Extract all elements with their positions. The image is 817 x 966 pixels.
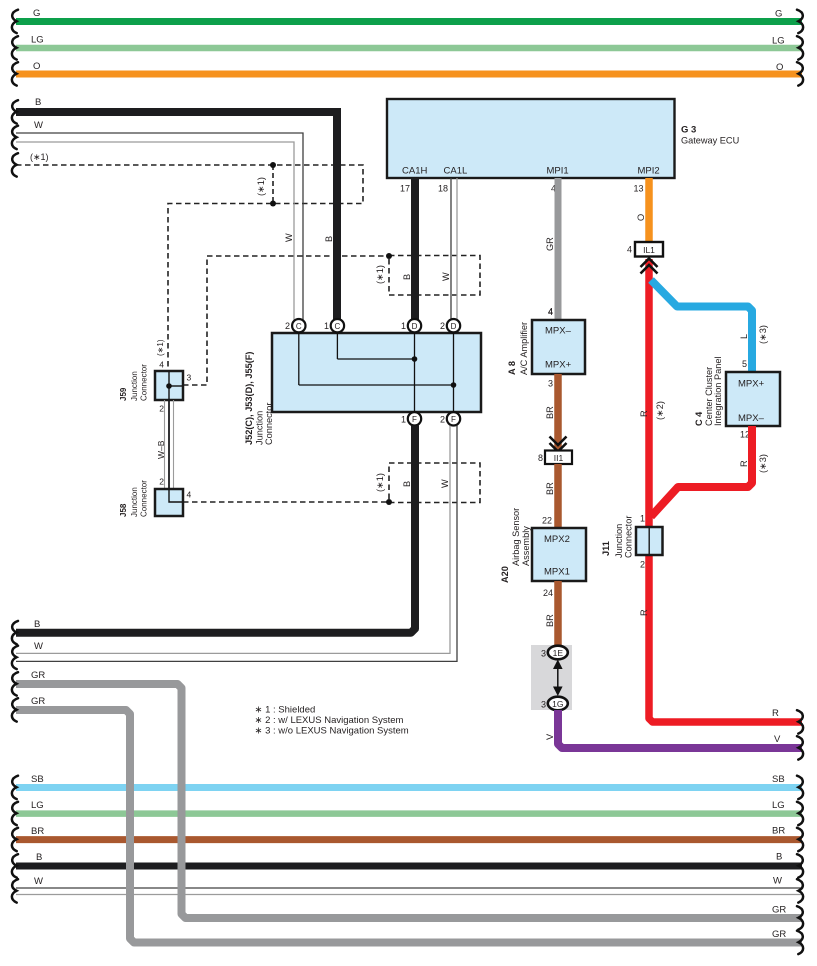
svg-text:(∗1): (∗1) <box>30 152 49 162</box>
svg-text:MPX–: MPX– <box>738 413 765 424</box>
svg-text:17: 17 <box>400 184 410 194</box>
svg-text:BR: BR <box>545 482 555 495</box>
svg-text:1: 1 <box>640 514 645 524</box>
wire SB bottom bus <box>12 774 803 799</box>
svg-text:W: W <box>34 876 43 887</box>
wire GR 1 (left edge to bottom right) <box>12 670 803 930</box>
svg-text:∗ 3 : w/o LEXUS Navigation Sys: ∗ 3 : w/o LEXUS Navigation System <box>255 725 409 736</box>
svg-text:C: C <box>296 322 302 331</box>
svg-text:8: 8 <box>538 453 543 463</box>
svg-text:R: R <box>639 609 649 616</box>
svg-text:W: W <box>34 641 43 652</box>
wire CA1H black (G3 to J52 1D) <box>411 178 419 320</box>
svg-text:1G: 1G <box>552 699 563 709</box>
svg-text:A20: A20 <box>500 566 510 583</box>
svg-text:V: V <box>774 734 781 745</box>
svg-text:B: B <box>35 97 41 108</box>
svg-text:24: 24 <box>543 588 553 598</box>
svg-text:V: V <box>545 733 555 740</box>
Airbag Sensor Assembly A20 box <box>500 508 586 598</box>
svg-text:(∗1): (∗1) <box>375 265 385 284</box>
svg-text:2: 2 <box>440 415 445 425</box>
wire BR brown (A20 to 1E) <box>545 581 558 646</box>
svg-text:J52(C), J53(D), J55(F): J52(C), J53(D), J55(F) <box>244 352 254 445</box>
svg-text:Connector: Connector <box>140 364 149 401</box>
svg-text:SB: SB <box>31 774 44 785</box>
svg-text:13: 13 <box>633 184 643 194</box>
svg-text:(∗1): (∗1) <box>156 339 165 356</box>
svg-text:Integration Panel: Integration Panel <box>713 357 723 426</box>
svg-text:LG: LG <box>772 800 785 811</box>
svg-text:J58: J58 <box>119 503 128 517</box>
svg-text:(∗1): (∗1) <box>256 177 266 196</box>
svg-text:2: 2 <box>285 321 290 331</box>
svg-text:1: 1 <box>401 415 406 425</box>
shield dashed box around CA1H/CA1L <box>375 253 480 295</box>
svg-text:(∗3): (∗3) <box>758 325 768 344</box>
wire BR brown (A8 to II1) <box>545 374 558 450</box>
svg-text:B: B <box>776 852 782 863</box>
junction connector J58 <box>119 480 192 517</box>
svg-text:MPX+: MPX+ <box>545 360 572 371</box>
svg-text:W–B: W–B <box>156 440 166 459</box>
svg-text:W: W <box>773 876 782 887</box>
svg-text:BR: BR <box>545 614 555 627</box>
svg-text:4: 4 <box>548 307 553 317</box>
wire MPI1 GR (G3 to A8) <box>545 178 558 320</box>
pin 1D <box>401 319 421 332</box>
svg-text:L: L <box>739 334 749 339</box>
wire B top (black, to J52 pin 1C) <box>12 97 337 320</box>
svg-text:BR: BR <box>772 826 785 837</box>
junction connector J59 <box>119 339 192 413</box>
svg-text:3: 3 <box>541 649 546 659</box>
svg-text:1: 1 <box>401 321 406 331</box>
wire CA1L white (G3 to J52 2D) <box>451 178 457 320</box>
svg-text:F: F <box>451 415 456 424</box>
svg-text:2: 2 <box>440 321 445 331</box>
svg-text:(∗1): (∗1) <box>375 473 385 492</box>
wire LG top bus <box>12 35 803 60</box>
shield link dots (*1) <box>256 162 276 207</box>
svg-text:GR: GR <box>772 929 786 940</box>
dashed route J58 pin4 to lower shield box <box>183 501 387 503</box>
svg-text:Airbag Sensor: Airbag Sensor <box>511 508 521 566</box>
junction connector J52(C),J53(D),J55(F) box <box>244 332 481 445</box>
notes legend <box>255 704 409 736</box>
wire W top (white, to J52 pin 2C) <box>12 120 303 320</box>
wire V purple (1G to right edge) <box>545 710 803 760</box>
arrow between 1E and 1G <box>553 660 563 697</box>
svg-text:A/C Amplifier: A/C Amplifier <box>519 322 529 375</box>
svg-text:BR: BR <box>31 826 44 837</box>
pin 1F <box>401 412 421 425</box>
svg-text:J11: J11 <box>601 541 611 556</box>
pin 2F <box>440 412 460 425</box>
A/C Amplifier A8 box <box>507 307 585 389</box>
svg-text:4: 4 <box>187 490 192 500</box>
svg-text:Junction: Junction <box>255 411 265 445</box>
wire R red (C4 pin12 to J11) <box>651 426 768 517</box>
svg-text:MPX2: MPX2 <box>544 534 570 545</box>
svg-text:Junction: Junction <box>130 487 139 517</box>
svg-text:(∗2): (∗2) <box>655 401 665 420</box>
wire W-B (J59 to J58) <box>156 400 174 489</box>
wire W bottom bus <box>12 876 803 903</box>
svg-text:W: W <box>440 479 450 488</box>
svg-text:5: 5 <box>742 359 747 369</box>
wire G top bus <box>12 8 803 33</box>
pin 2D <box>440 319 460 332</box>
svg-text:GR: GR <box>772 905 786 916</box>
wire LG bottom bus <box>12 800 803 825</box>
svg-text:4: 4 <box>159 360 164 370</box>
svg-text:R: R <box>639 410 649 417</box>
svg-text:Junction: Junction <box>614 524 624 558</box>
svg-text:MPX+: MPX+ <box>738 379 765 390</box>
svg-text:MPX–: MPX– <box>545 326 572 337</box>
svg-text:LG: LG <box>31 35 44 46</box>
svg-text:CA1H: CA1H <box>402 166 427 177</box>
svg-text:R: R <box>772 708 779 719</box>
svg-text:J59: J59 <box>119 387 128 401</box>
connector II1 <box>538 451 572 465</box>
svg-text:2: 2 <box>159 404 164 414</box>
wire GR 2 (left edge to bottom right) <box>12 696 803 954</box>
svg-text:SB: SB <box>772 774 785 785</box>
svg-text:O: O <box>636 214 646 221</box>
svg-text:O: O <box>776 62 783 73</box>
pin 2C <box>285 319 306 332</box>
connector 1E <box>541 646 568 660</box>
svg-text:MPI2: MPI2 <box>638 166 660 177</box>
svg-text:Connector: Connector <box>140 480 149 517</box>
svg-text:G: G <box>33 8 40 19</box>
svg-text:B: B <box>36 852 42 863</box>
svg-text:1E: 1E <box>553 648 564 658</box>
svg-text:G 3: G 3 <box>681 125 696 136</box>
svg-text:C 4: C 4 <box>694 411 704 426</box>
svg-text:LG: LG <box>31 800 44 811</box>
svg-text:O: O <box>33 61 40 72</box>
svg-text:22: 22 <box>542 516 552 526</box>
wire R red main (IL1 to bottom right) <box>639 259 803 734</box>
shaded connector block 1E/1G <box>531 645 572 710</box>
wire L blue (red tap to C4 pin 5) <box>651 280 768 372</box>
svg-text:∗ 2 : w/ LEXUS Navigation Syst: ∗ 2 : w/ LEXUS Navigation System <box>255 715 404 726</box>
svg-text:GR: GR <box>545 237 555 251</box>
svg-text:LG: LG <box>772 36 785 47</box>
svg-text:1: 1 <box>324 321 329 331</box>
connector 1G <box>541 697 568 711</box>
svg-text:MPI1: MPI1 <box>547 166 569 177</box>
pin 1C <box>324 319 344 332</box>
svg-text:C: C <box>335 322 341 331</box>
svg-text:G: G <box>775 9 782 20</box>
svg-text:4: 4 <box>627 245 632 255</box>
svg-text:18: 18 <box>438 184 448 194</box>
svg-text:3: 3 <box>541 700 546 710</box>
svg-text:CA1L: CA1L <box>444 166 468 177</box>
svg-text:II1: II1 <box>554 453 564 463</box>
svg-text:B: B <box>402 481 412 487</box>
wire MPI2 O orange (G3 to IL1) <box>636 178 649 242</box>
svg-text:3: 3 <box>187 373 192 383</box>
svg-text:B: B <box>402 274 412 280</box>
svg-text:Gateway ECU: Gateway ECU <box>681 136 739 146</box>
chevron under IL1 <box>641 259 658 274</box>
svg-text:BR: BR <box>545 406 555 419</box>
svg-text:W: W <box>441 272 451 281</box>
wire O top bus <box>12 61 803 86</box>
wire B bottom (J52 1F to left edge) <box>12 426 415 645</box>
svg-text:∗ 1 : Shielded: ∗ 1 : Shielded <box>255 704 316 715</box>
connector IL1 <box>627 242 663 257</box>
lower shield dashed box around B/W <box>375 463 480 505</box>
svg-text:B: B <box>34 619 40 630</box>
Gateway ECU G3 box <box>387 99 739 178</box>
wire B bottom bus <box>12 852 803 878</box>
svg-text:R: R <box>739 460 749 467</box>
svg-text:W: W <box>34 120 43 131</box>
dashed shield route J59 pin3 to CA1 shield box <box>183 256 386 385</box>
svg-text:B: B <box>324 236 334 242</box>
svg-text:Assembly: Assembly <box>521 526 531 566</box>
svg-text:GR: GR <box>31 696 45 707</box>
svg-text:3: 3 <box>548 379 553 389</box>
svg-text:W: W <box>284 233 294 242</box>
svg-text:2: 2 <box>640 560 645 570</box>
svg-text:2: 2 <box>159 477 164 487</box>
junction connector J11 <box>601 514 663 570</box>
svg-text:IL1: IL1 <box>643 245 655 255</box>
svg-text:MPX1: MPX1 <box>544 567 570 578</box>
svg-text:Connector: Connector <box>264 403 274 445</box>
svg-text:(∗3): (∗3) <box>758 454 768 473</box>
svg-text:GR: GR <box>31 670 45 681</box>
svg-text:Junction: Junction <box>130 371 139 401</box>
svg-text:Connector: Connector <box>624 516 634 558</box>
wire BR bottom bus <box>12 826 803 852</box>
svg-text:D: D <box>451 322 457 331</box>
svg-text:D: D <box>412 322 418 331</box>
wire W bottom (J52 2F to left edge) <box>12 426 457 670</box>
svg-text:A 8: A 8 <box>507 361 517 375</box>
svg-text:F: F <box>412 415 417 424</box>
Center Cluster Integration Panel C4 box <box>694 357 780 440</box>
wire BR brown (II1 to A20) <box>542 464 558 528</box>
dashed shield wire (*1) top left <box>12 152 363 371</box>
chevron above II1 <box>550 437 567 452</box>
